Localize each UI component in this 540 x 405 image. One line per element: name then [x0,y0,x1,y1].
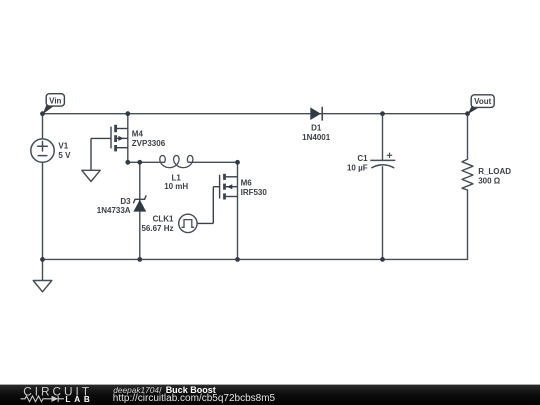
ground (M4 gate) [82,170,100,181]
svg-text:ZVP3306: ZVP3306 [132,139,166,148]
diode D3 (zener 1N4733A) [133,196,146,212]
node dot Vout [465,111,470,116]
M6 body arrow [227,184,233,189]
M6 body stub [226,186,238,188]
svg-text:5 V: 5 V [58,151,71,160]
svg-text:http://circuitlab.com/cb5q72bc: http://circuitlab.com/cb5q72bcbs8m5 [113,393,276,404]
svg-text:R_LOAD: R_LOAD [478,167,511,176]
svg-text:1N4001: 1N4001 [302,133,331,142]
ground (left, under V1) [33,281,52,292]
wire C1 branch bottom [382,167,384,260]
wire V1 top lead [42,114,44,139]
svg-text:CLK1: CLK1 [153,214,174,223]
wire V1 bottom lead [42,162,44,259]
node dot D3 top [137,160,142,165]
wire M4 drain-source bus [127,114,129,163]
wire M4 gate lead [91,137,111,139]
wire coil to M6 [188,161,237,163]
svg-text:1N4733A: 1N4733A [97,206,131,215]
node dot Vin [40,111,45,116]
M6 drain stub [226,176,238,178]
wire bottom rail [43,258,468,260]
wire top rail Vin to Vout [43,113,468,115]
svg-text:LAB: LAB [65,395,93,404]
node Vout flag [468,95,495,115]
node dot M4 top [125,111,130,116]
transistor M4 (PMOS) [91,125,128,171]
M4 body stub [117,137,128,139]
wire middle rail M4 to coil [128,161,165,163]
capacitor C1 [370,153,395,168]
transistor M6 (NMOS) [197,174,238,224]
M6 gate bar [219,175,221,199]
svg-text:M6: M6 [241,179,253,188]
resistor R_LOAD [462,159,473,190]
node dot bottom D3 [137,257,142,262]
M4 drain stub [117,128,128,130]
wire ground stem left [42,259,44,280]
node dot bottom M6 [235,257,240,262]
svg-text:10 mH: 10 mH [164,182,188,191]
footer bar [0,385,540,405]
wire R_LOAD top lead [467,114,469,160]
node dot M4 bottom [125,160,130,165]
inductor L1 [160,156,193,168]
logo squiggle resistor+diode [21,396,65,402]
diode D1 (1N4001) [310,107,322,121]
node dot C1 top [380,111,385,116]
svg-text:M4: M4 [132,129,144,138]
wire M6 gate lead to CLK1 [213,186,219,188]
svg-text:D3: D3 [120,197,131,206]
M4 body arrow [118,136,124,141]
node dot bottom left [40,257,45,262]
svg-text:Vout: Vout [474,97,492,106]
wire C1 branch top [382,114,384,161]
svg-text:V1: V1 [58,142,68,151]
M4 source stub [117,147,128,149]
node dot L1 right / M6 top [235,160,240,165]
svg-text:IRF530: IRF530 [241,188,268,197]
node dot bottom C1 [380,257,385,262]
clock source CLK1 [179,214,197,232]
wire M6 drain-source bus [237,162,239,259]
node Vin flag [43,94,65,115]
wire R_LOAD bottom lead [467,190,469,259]
svg-text:D1: D1 [311,123,322,132]
svg-text:300 Ω: 300 Ω [478,176,501,185]
svg-text:Vin: Vin [49,97,61,106]
M4 gate bar [110,127,112,149]
svg-text:C1: C1 [357,154,368,163]
voltage source V1 [31,139,54,162]
svg-text:56.67 Hz: 56.67 Hz [141,224,173,233]
svg-text:10 µF: 10 µF [347,163,368,172]
M6 source stub [226,196,238,198]
wire D3 branch [139,162,141,259]
